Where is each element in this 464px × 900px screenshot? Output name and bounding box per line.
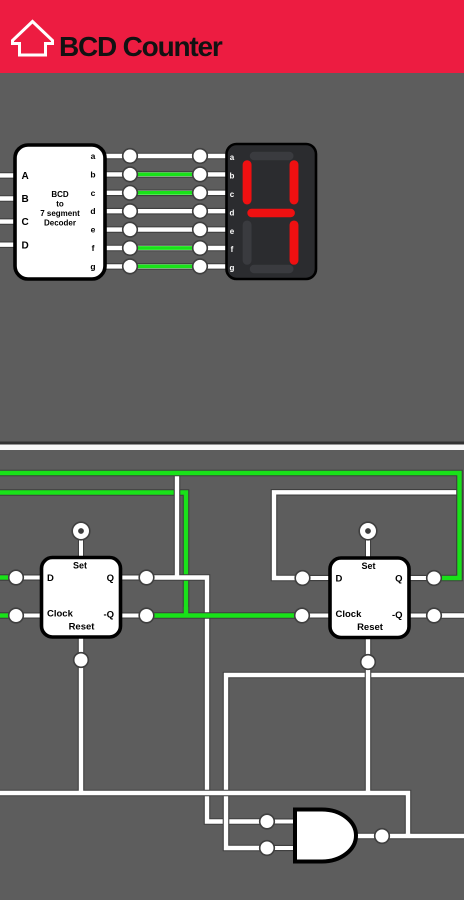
svg-text:b: b (230, 172, 235, 181)
node AND input top (260, 814, 275, 829)
node FF1 D (9, 570, 24, 585)
pin leg FF1 D (16, 574, 44, 580)
pin leg FF1 Clock (16, 612, 44, 618)
wire FF2 -Q to right edge (white) (434, 612, 464, 619)
pin ring FF2 Set (359, 522, 377, 540)
svg-text:f: f (231, 245, 234, 254)
svg-text:g: g (230, 264, 235, 273)
node column 1 row b (123, 167, 138, 182)
segment b (on) (290, 165, 299, 200)
svg-text:a: a (91, 151, 96, 161)
wire segment a (103, 153, 228, 160)
node column 1 row c (123, 186, 138, 201)
svg-text:Clock: Clock (336, 609, 363, 620)
svg-text:B: B (22, 194, 29, 205)
wire segment f (103, 245, 228, 252)
svg-text:C: C (22, 217, 29, 228)
svg-text:BCD: BCD (51, 190, 69, 199)
node FF1 Clock (9, 608, 24, 623)
wire segment c (103, 190, 228, 197)
node column 1 row f (123, 241, 138, 256)
svg-text:D: D (47, 573, 54, 584)
wire b active (green) (130, 172, 200, 176)
app title (59, 31, 222, 63)
node FF2 Q (427, 571, 442, 586)
node column 2 row c (193, 186, 208, 201)
section divider dark edge (0, 442, 464, 445)
svg-text:Set: Set (73, 561, 87, 571)
svg-text:b: b (90, 169, 95, 179)
wire segment e (103, 226, 228, 233)
wire FF2 D feedback loop (white) (274, 492, 460, 578)
wire FF1 Clock input stub (green) (0, 612, 16, 619)
wire segment d (103, 208, 228, 215)
wire input A stub (0, 172, 18, 179)
node FF1 Reset (74, 653, 89, 668)
svg-text:f: f (92, 243, 95, 253)
pin leg AND input bottom (267, 845, 296, 851)
reset net: AND output to FF1/FF2 Reset (white) (0, 637, 464, 836)
node column 1 row a (123, 149, 138, 164)
svg-text:A: A (22, 171, 29, 182)
segment c (on) (290, 225, 299, 260)
segment g (on) (252, 209, 291, 217)
node FF2 D (295, 571, 310, 586)
wire f active (green) (130, 246, 200, 250)
wire AND gate lower input from right edge (white) (226, 675, 464, 848)
wire FF1 D input stub (green) (0, 574, 16, 581)
svg-text:d: d (230, 208, 235, 217)
D flip-flop U2 (42, 558, 121, 638)
wire FF1 -Q to FF2 Clock (green) (147, 612, 303, 619)
wire input D stub (0, 241, 18, 248)
pin leg FF2 -Q (406, 612, 434, 618)
svg-text:Clock: Clock (47, 609, 74, 620)
wire FF1 -Q branch to left edge (green) (0, 493, 186, 616)
svg-text:Q: Q (395, 574, 402, 585)
svg-text:D: D (22, 240, 29, 251)
D flip-flop U3 (330, 558, 409, 638)
node column 1 row g (123, 259, 138, 274)
node FF1 Q (139, 570, 154, 585)
node AND input bottom (260, 841, 275, 856)
node column 1 row e (123, 222, 138, 237)
pin leg FF1 -Q (118, 612, 147, 618)
svg-text:to: to (56, 200, 64, 209)
segment e (off) (243, 225, 252, 260)
pin leg AND input top (267, 818, 296, 824)
node column 2 row f (193, 241, 208, 256)
pin ring FF1 Set (72, 522, 90, 540)
wire junction patch at green T (184, 607, 188, 616)
svg-text:7 segment: 7 segment (40, 209, 80, 218)
svg-text:d: d (90, 206, 95, 216)
pin leg FF2 Set (365, 531, 371, 559)
wire FF2 Q to left edge (green) (0, 473, 460, 578)
pin leg FF1 Set (78, 531, 84, 559)
wire segment g (103, 263, 228, 270)
svg-text:Reset: Reset (69, 622, 96, 633)
node FF1 -Q (139, 608, 154, 623)
wire input B stub (0, 195, 18, 202)
pin leg FF2 Clock (302, 612, 331, 618)
svg-text:Set: Set (361, 561, 375, 571)
svg-text:-Q: -Q (103, 610, 114, 621)
svg-text:a: a (230, 153, 235, 162)
node column 2 row b (193, 167, 208, 182)
segment f (on) (243, 165, 252, 200)
svg-text:Q: Q (107, 573, 114, 584)
pin leg FF2 Q (406, 575, 434, 581)
wire FF1 Q to AND gate input with branch up (white) (147, 473, 268, 822)
home icon (9, 17, 55, 59)
7-segment display (227, 144, 317, 279)
segment a (off) (254, 152, 289, 161)
wire segment b (103, 171, 228, 178)
node FF2 Clock (295, 608, 310, 623)
wire g active (green) (130, 264, 200, 268)
node column 2 row d (193, 204, 208, 219)
svg-text:g: g (90, 261, 95, 271)
BCD to 7-segment decoder U1 (15, 145, 105, 279)
segment d (off) (254, 265, 289, 274)
node FF2 Reset (361, 655, 376, 670)
svg-text:-Q: -Q (392, 610, 403, 621)
AND gate (295, 810, 356, 862)
svg-text:Decoder: Decoder (44, 219, 76, 228)
pin leg FF1 Q (118, 574, 147, 580)
svg-text:Reset: Reset (357, 622, 384, 633)
node column 2 row g (193, 259, 208, 274)
node column 1 row d (123, 204, 138, 219)
svg-text:c: c (91, 188, 96, 198)
svg-text:e: e (230, 227, 235, 236)
app header bar (0, 0, 464, 73)
svg-text:D: D (336, 574, 343, 585)
svg-text:e: e (91, 225, 96, 235)
svg-text:c: c (230, 190, 235, 199)
wire c active (green) (130, 191, 200, 195)
pin leg FF2 D (303, 575, 332, 581)
node FF2 -Q (427, 608, 442, 623)
wire input C stub (0, 218, 18, 225)
node AND output (375, 829, 390, 844)
node column 2 row e (193, 222, 208, 237)
node column 2 row a (193, 149, 208, 164)
section divider white band (0, 445, 464, 451)
